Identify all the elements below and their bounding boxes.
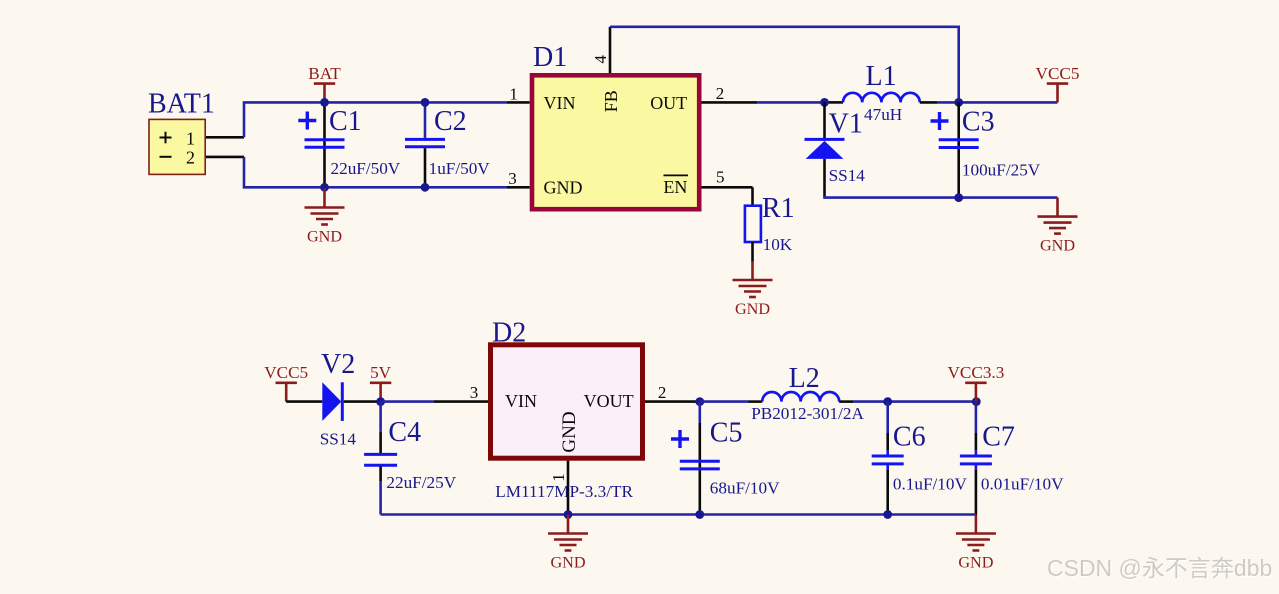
svg-text:D1: D1	[533, 42, 567, 73]
svg-text:PB2012-301/2A: PB2012-301/2A	[751, 404, 864, 423]
svg-text:C2: C2	[434, 106, 467, 137]
svg-text:GND: GND	[735, 300, 770, 318]
svg-text:FB: FB	[601, 90, 621, 112]
svg-text:SS14: SS14	[829, 166, 866, 185]
svg-text:LM1117MP-3.3/TR: LM1117MP-3.3/TR	[495, 482, 633, 501]
svg-text:L2: L2	[789, 363, 820, 394]
svg-text:BAT1: BAT1	[148, 88, 215, 119]
svg-text:VIN: VIN	[505, 391, 537, 411]
svg-text:C6: C6	[893, 422, 926, 453]
svg-text:D2: D2	[492, 318, 526, 349]
svg-text:GND: GND	[307, 228, 342, 246]
svg-text:0.1uF/10V: 0.1uF/10V	[893, 475, 968, 494]
svg-text:BAT: BAT	[308, 64, 341, 83]
svg-text:68uF/10V: 68uF/10V	[710, 479, 780, 498]
svg-text:2: 2	[658, 383, 667, 402]
svg-text:GND: GND	[559, 411, 580, 452]
svg-text:4: 4	[591, 55, 610, 64]
svg-text:VCC5: VCC5	[264, 363, 308, 382]
svg-text:5: 5	[716, 167, 725, 186]
svg-text:1: 1	[509, 84, 518, 103]
svg-text:C3: C3	[962, 107, 995, 138]
svg-text:2: 2	[186, 147, 195, 167]
svg-text:V1: V1	[829, 109, 863, 140]
svg-text:5V: 5V	[370, 363, 392, 382]
svg-text:VIN: VIN	[544, 93, 576, 113]
svg-text:V2: V2	[321, 349, 355, 380]
svg-text:EN: EN	[663, 177, 687, 197]
svg-text:C4: C4	[388, 417, 421, 448]
svg-text:2: 2	[716, 84, 725, 103]
svg-text:10K: 10K	[763, 235, 793, 254]
svg-text:1uF/50V: 1uF/50V	[429, 159, 491, 178]
svg-text:C5: C5	[710, 418, 743, 449]
svg-text:GND: GND	[1040, 237, 1075, 255]
svg-text:GND: GND	[958, 554, 993, 572]
svg-text:VCC5: VCC5	[1036, 64, 1080, 83]
svg-text:22uF/25V: 22uF/25V	[386, 473, 456, 492]
svg-text:VOUT: VOUT	[584, 391, 634, 411]
svg-text:VCC3.3: VCC3.3	[947, 363, 1004, 382]
svg-text:3: 3	[508, 169, 517, 188]
svg-text:SS14: SS14	[320, 430, 357, 449]
svg-text:GND: GND	[544, 178, 583, 198]
svg-text:3: 3	[470, 383, 479, 402]
svg-text:22uF/50V: 22uF/50V	[331, 159, 401, 178]
svg-text:47uH: 47uH	[864, 105, 902, 124]
svg-text:C7: C7	[982, 422, 1015, 453]
svg-text:1: 1	[549, 473, 568, 482]
svg-text:100uF/25V: 100uF/25V	[962, 161, 1041, 180]
svg-text:C1: C1	[329, 106, 362, 137]
svg-text:L1: L1	[866, 61, 897, 92]
svg-text:1: 1	[186, 129, 195, 149]
svg-text:R1: R1	[762, 193, 795, 224]
svg-text:OUT: OUT	[650, 93, 687, 113]
svg-text:GND: GND	[550, 554, 585, 572]
svg-text:CSDN @永不言奔dbb: CSDN @永不言奔dbb	[1047, 555, 1272, 581]
svg-text:0.01uF/10V: 0.01uF/10V	[981, 475, 1064, 494]
